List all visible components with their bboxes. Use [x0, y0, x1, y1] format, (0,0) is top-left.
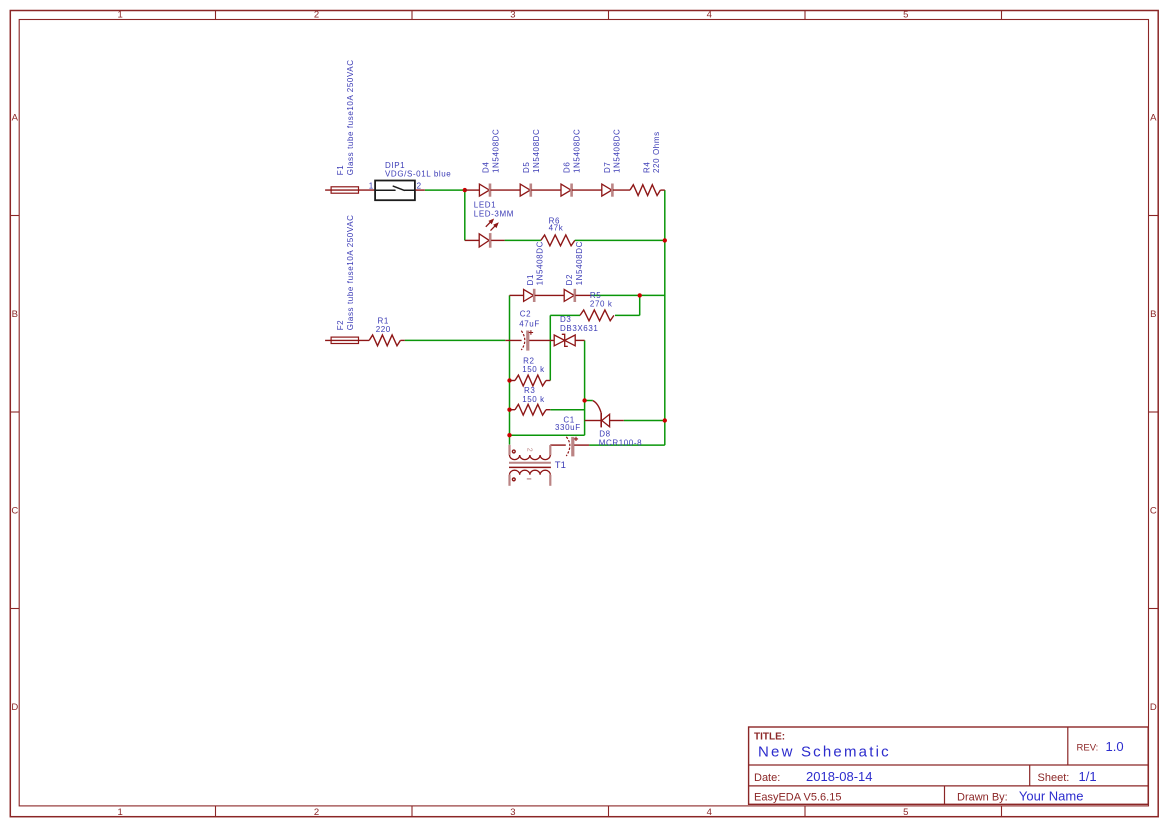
- svg-text:2018-08-14: 2018-08-14: [806, 769, 873, 784]
- transformer T1 polarity dot top: [512, 450, 515, 453]
- wire D5-D6: [531, 189, 561, 191]
- svg-text:C: C: [1150, 506, 1157, 517]
- fuse F1 leads: [325, 189, 375, 191]
- title block column separators: [1067, 727, 1069, 765]
- svg-text:2: 2: [314, 10, 319, 21]
- svg-text:VDG/S-01L blue: VDG/S-01L blue: [385, 170, 451, 179]
- wire R5 right segment: [615, 314, 640, 316]
- svg-text:D5: D5: [522, 162, 531, 173]
- svg-text:F1: F1: [336, 165, 345, 176]
- wire LED to R6: [505, 239, 541, 241]
- svg-text:New Schematic: New Schematic: [758, 744, 891, 761]
- thyristor D8 cathode lead: [585, 420, 601, 422]
- wire C2 to D3: [529, 339, 554, 341]
- capacitor C1 curved plate: [566, 437, 570, 456]
- svg-text:3: 3: [510, 10, 515, 21]
- svg-text:D4: D4: [482, 162, 491, 173]
- svg-text:Glass tube fuse10A 250VAC: Glass tube fuse10A 250VAC: [346, 59, 355, 175]
- fuse F2 body: [331, 337, 358, 343]
- svg-text:D2: D2: [565, 274, 574, 285]
- svg-text:1N5408DC: 1N5408DC: [572, 129, 581, 173]
- junction D8 / right rail: [663, 418, 667, 422]
- junction R3 left: [507, 408, 511, 412]
- wire D8 anode to right rail: [624, 420, 665, 422]
- diode D7: [602, 184, 612, 196]
- thyristor D8 cathode bar: [600, 413, 602, 428]
- wire R1 to C2: [405, 339, 506, 341]
- transformer T1 primary leads: [508, 475, 510, 486]
- svg-text:D6: D6: [562, 162, 571, 173]
- wire D7-R4: [613, 189, 630, 191]
- svg-text:EasyEDA V5.6.15: EasyEDA V5.6.15: [754, 791, 841, 803]
- wire right rail: [664, 190, 666, 445]
- LED1 cathode bar: [489, 233, 492, 248]
- svg-text:T1: T1: [555, 460, 566, 471]
- svg-text:MCR100-8: MCR100-8: [599, 438, 642, 447]
- capacitor C2 left lead: [505, 339, 521, 341]
- svg-text:1N5408DC: 1N5408DC: [613, 129, 622, 173]
- resistor R1 right lead: [400, 339, 404, 341]
- wire R6 to right rail: [575, 239, 665, 241]
- fuse F2 leads: [325, 339, 369, 341]
- diode D6: [561, 184, 571, 196]
- diode D4 leads: [465, 189, 480, 191]
- svg-text:150 k: 150 k: [522, 365, 545, 374]
- fuse F1 body: [331, 187, 358, 193]
- svg-text:D: D: [1150, 702, 1157, 713]
- LED1 arrows: [486, 220, 497, 231]
- resistor R1: [369, 335, 400, 346]
- svg-text:4: 4: [707, 10, 712, 21]
- thyristor D8 anode lead: [610, 420, 624, 422]
- svg-text:D: D: [11, 702, 18, 713]
- diac D3 right lead: [575, 339, 584, 341]
- svg-text:Sheet:: Sheet:: [1038, 772, 1070, 784]
- svg-text:TITLE:: TITLE:: [754, 732, 785, 743]
- svg-text:D8: D8: [599, 430, 610, 439]
- svg-text:1: 1: [369, 182, 374, 191]
- capacitor C1 right lead: [574, 444, 589, 446]
- svg-text:C: C: [11, 506, 18, 517]
- svg-text:D3: D3: [560, 315, 571, 324]
- svg-text:DB3X631: DB3X631: [560, 324, 598, 333]
- svg-text:Glass tube fuse10A 250VAC: Glass tube fuse10A 250VAC: [346, 214, 355, 330]
- junction R2 left: [507, 378, 511, 382]
- wire C1 to right rail corner: [589, 444, 665, 446]
- wire D2 to right rail: [591, 294, 665, 296]
- svg-text:1N5408DC: 1N5408DC: [575, 241, 584, 285]
- svg-text:1N5408DC: 1N5408DC: [492, 129, 501, 173]
- svg-text:Drawn By:: Drawn By:: [957, 791, 1008, 803]
- wire left rail node A down to LED row: [464, 190, 466, 240]
- LED1 triangle: [479, 234, 489, 247]
- svg-text:5: 5: [903, 10, 908, 21]
- svg-text:47k: 47k: [549, 223, 564, 232]
- frame row ticks: [10, 215, 19, 217]
- resistor R5: [580, 310, 614, 321]
- junction R6 / right rail: [663, 238, 667, 242]
- svg-text:LED1: LED1: [474, 201, 496, 210]
- svg-text:270 k: 270 k: [590, 300, 613, 309]
- wire R5 left segment: [550, 314, 580, 316]
- LED1 anode lead: [465, 239, 479, 241]
- transformer T1 secondary winding: [510, 455, 551, 460]
- capacitor C1 plus sign: [574, 437, 578, 441]
- diode D1 anode lead: [510, 294, 524, 296]
- wire rail R5-left down to R2 right: [549, 315, 551, 380]
- resistor R2 right lead: [546, 380, 550, 382]
- title block row lines: [749, 764, 1149, 766]
- svg-text:1N5408DC: 1N5408DC: [532, 129, 541, 173]
- wire D3 rail down: [584, 340, 586, 435]
- svg-text:1.0: 1.0: [1106, 739, 1124, 754]
- svg-text:1N5408DC: 1N5408DC: [536, 241, 545, 285]
- svg-text:330uF: 330uF: [555, 423, 581, 432]
- capacitor C1 left lead: [550, 444, 566, 446]
- svg-text:R4: R4: [642, 162, 651, 173]
- svg-text:Date:: Date:: [754, 772, 780, 784]
- wire D1-D2: [535, 294, 565, 296]
- svg-text:LED-3MM: LED-3MM: [474, 210, 514, 219]
- wire R3 right to D3 rail: [550, 409, 584, 411]
- resistor R2 left lead: [510, 380, 516, 382]
- svg-text:2: 2: [314, 807, 319, 818]
- LED1 cathode lead: [491, 239, 504, 241]
- wire R4 right lead: [660, 189, 664, 191]
- svg-text:A: A: [12, 113, 19, 124]
- wire mid-left rail D1 down to T1: [509, 295, 511, 444]
- capacitor C1 straight plate: [571, 437, 574, 457]
- junction gate node: [582, 398, 586, 402]
- title block outline: [749, 727, 1149, 804]
- resistor R4: [630, 185, 660, 196]
- wire D6-D7: [572, 189, 602, 191]
- svg-text:B: B: [12, 309, 18, 320]
- junction bottom left: [507, 433, 511, 437]
- wire DIP1 pin2 red lead: [416, 189, 425, 191]
- svg-text:D1: D1: [526, 274, 535, 285]
- transformer T1 polarity dot bottom: [512, 478, 515, 481]
- capacitor C2 straight plate: [526, 331, 529, 351]
- diode D1: [524, 289, 534, 301]
- wire node C down to R5 right: [639, 295, 641, 315]
- switch DIP1 box: [375, 181, 415, 201]
- svg-text:D7: D7: [603, 162, 612, 173]
- svg-text:220: 220: [376, 325, 391, 334]
- wire D4-D5: [491, 189, 521, 191]
- diode D4: [479, 184, 489, 196]
- capacitor C2 plus sign: [529, 330, 533, 334]
- svg-text:2: 2: [526, 448, 533, 452]
- svg-text:C2: C2: [520, 309, 531, 318]
- diode D5: [520, 184, 530, 196]
- frame column ticks: [215, 11, 217, 20]
- resistor R3 right lead: [546, 409, 550, 411]
- transformer T1 pin number 1: [527, 478, 532, 480]
- resistor R6: [541, 235, 575, 246]
- switch DIP1 lever: [376, 186, 415, 190]
- wire gate stub: [585, 400, 593, 402]
- svg-text:REV:: REV:: [1077, 743, 1099, 754]
- svg-text:150 k: 150 k: [522, 395, 545, 404]
- svg-text:220 Ohms: 220 Ohms: [652, 131, 661, 173]
- resistor R3: [515, 404, 546, 415]
- svg-text:F2: F2: [336, 320, 345, 331]
- svg-text:4: 4: [707, 807, 712, 818]
- thyristor D8 triangle: [602, 414, 610, 427]
- svg-text:3: 3: [510, 807, 515, 818]
- svg-text:1: 1: [117, 10, 122, 21]
- svg-text:R3: R3: [524, 386, 535, 395]
- capacitor C2 curved plate: [521, 331, 525, 350]
- diode D2: [564, 289, 574, 301]
- svg-text:Your Name: Your Name: [1019, 789, 1084, 804]
- svg-text:2: 2: [417, 182, 422, 191]
- junction node C: [638, 293, 642, 297]
- wire DIP1 to node A: [425, 189, 465, 191]
- transformer T1 secondary top leads: [508, 445, 510, 455]
- svg-text:1: 1: [117, 807, 122, 818]
- resistor R3 left lead: [510, 409, 516, 411]
- junction node A: [463, 188, 467, 192]
- resistor R2: [515, 375, 546, 386]
- svg-text:5: 5: [903, 807, 908, 818]
- transformer T1 primary winding: [510, 470, 551, 475]
- svg-text:1/1: 1/1: [1079, 769, 1097, 784]
- transformer T1 core: [509, 462, 551, 464]
- wire bottom horizontal: [510, 434, 585, 436]
- svg-text:B: B: [1150, 309, 1156, 320]
- thyristor D8 gate lead: [593, 401, 601, 413]
- diode D2 cathode lead: [575, 294, 591, 296]
- svg-text:A: A: [1150, 113, 1157, 124]
- diac D3: [554, 335, 565, 346]
- svg-text:47uF: 47uF: [519, 319, 540, 328]
